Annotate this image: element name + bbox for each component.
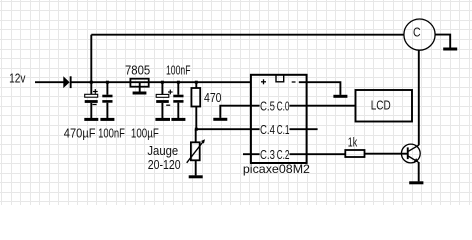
svg-text:C.3: C.3 [260,147,275,162]
ground of C [443,48,457,51]
ground of C2 [100,118,114,121]
transistor Q1 [401,144,420,181]
resistor R2 1k [345,150,364,157]
ground of 0V [333,95,347,98]
svg-text:100nF: 100nF [98,126,125,141]
node rail-riser-C1 [90,81,93,84]
ground of jauge [189,175,203,178]
resistor R1 470 [191,82,200,129]
node rail-R1 [195,81,198,84]
svg-text:12v: 12v [9,71,26,86]
pin C.1 stub [290,128,318,130]
connector C circle [404,19,435,50]
IC U1 picaxe08M2 [251,75,307,163]
svg-text:C.1: C.1 [277,122,290,137]
svg-text:100nF: 100nF [166,63,191,78]
svg-text:picaxe08M2: picaxe08M2 [243,162,310,176]
svg-text:C.5: C.5 [260,99,275,114]
display LCD [356,90,413,122]
ground of 7805 [133,92,147,95]
node divider [195,128,198,131]
wire node divider to C.4 [196,128,259,130]
diode D1 [63,76,71,88]
svg-text:C.2: C.2 [277,147,290,162]
node junction dots [90,81,198,131]
node rail-C3 [161,81,164,84]
svg-text:Jauge: Jauge [147,143,178,158]
wire C.5 to ground [220,106,259,118]
svg-text:LCD: LCD [371,98,391,113]
ground of C1 [84,118,98,121]
regulator U2 7805 [130,79,148,92]
pin C.2 wire to R2 [290,153,346,155]
pin C.0 wire to LCD [290,105,356,107]
ground of Q1 [409,181,423,184]
svg-text:C: C [413,25,421,40]
svg-text:7805: 7805 [125,63,150,78]
svg-text:100µF: 100µF [131,126,159,141]
ground of C4 [171,118,185,121]
wire C right to ground [435,35,450,48]
potentiometer jauge [187,129,205,175]
ground of C3 [155,118,170,121]
capacitor C1 470uF [85,82,98,118]
wire top rail [91,34,404,36]
capacitor C3 100uF [156,82,172,118]
wire diode to regulator input [72,81,252,83]
svg-text:470µF: 470µF [64,126,96,141]
pin C.3 stub [243,153,260,155]
svg-text:1k: 1k [348,134,358,149]
svg-text:C.4: C.4 [260,122,275,137]
node rail-C2 [106,81,109,84]
node rail-C4 [177,81,180,84]
capacitor C4 100nF [173,82,183,118]
wire 12V input [35,81,64,83]
capacitor C2 100nF [102,82,112,118]
wire +12V riser [90,35,92,82]
wire collector riser [418,50,420,145]
svg-text:470: 470 [204,90,222,105]
svg-text:20-120: 20-120 [148,157,181,172]
wire R2 to base [365,153,408,155]
wire 0V pin to ground [299,82,341,95]
ground of C.5 [213,118,227,121]
svg-text:C.0: C.0 [277,99,290,114]
